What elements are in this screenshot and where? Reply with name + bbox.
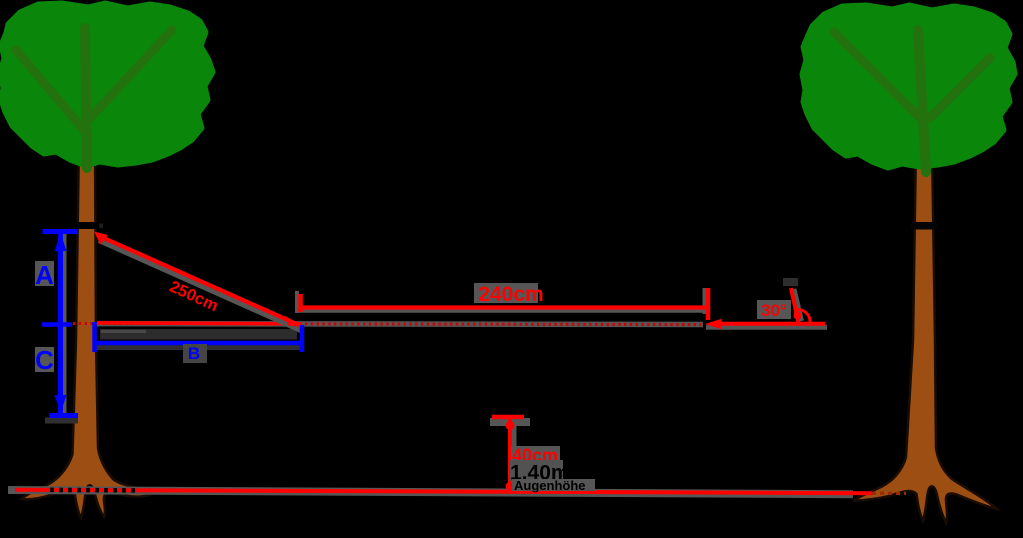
svg-text:Augenhöhe: Augenhöhe	[514, 478, 586, 493]
sight line shadow	[97, 321, 703, 327]
B right tick	[300, 325, 305, 352]
eye-height measure shadow	[510, 420, 517, 490]
horizontal red line eye to trunk	[97, 323, 301, 324]
ground line black dashes over left roots	[50, 488, 138, 493]
label C shadow	[35, 347, 54, 372]
ground line shadow	[8, 490, 853, 494]
240cm red line	[301, 305, 707, 309]
dimension B shadow	[96, 344, 302, 350]
eye-height top cap	[492, 415, 524, 420]
up arrowhead	[55, 233, 67, 251]
angle label shadow	[757, 300, 791, 319]
label B shadow	[183, 344, 207, 363]
eye-height vertical line	[508, 417, 512, 491]
label A shadow	[35, 261, 54, 286]
red baseline right	[718, 322, 825, 326]
tilted stick shadow	[794, 289, 802, 321]
ground line	[15, 490, 872, 493]
svg-text:30°: 30°	[761, 301, 787, 320]
svg-text:A: A	[35, 260, 54, 290]
black mark on right trunk	[911, 222, 937, 230]
svg-text:240cm: 240cm	[478, 283, 543, 306]
diagonal arrowhead lower	[285, 316, 302, 328]
blue vertical dimension line	[58, 231, 63, 415]
40cm label shadow	[511, 446, 560, 464]
arrow dot top	[506, 421, 515, 430]
right tree trunk and roots	[853, 142, 997, 523]
angle arc	[796, 310, 811, 323]
top cap	[43, 229, 79, 234]
down arrowhead	[55, 395, 67, 413]
svg-text:C: C	[35, 345, 54, 375]
blue B line	[95, 341, 302, 346]
right tree branches	[834, 30, 990, 172]
left tree foliage	[0, 3, 213, 166]
mid tick	[42, 322, 72, 327]
eye label box line2	[512, 479, 595, 491]
right baseline shadow	[706, 325, 827, 330]
svg-text:B: B	[188, 344, 200, 363]
sight arrow at stick	[705, 319, 722, 330]
ground line black dashes over right roots	[872, 492, 906, 495]
left tree trunk and roots	[21, 140, 152, 518]
dotted sight line	[73, 324, 701, 325]
small dark mark above stick	[783, 278, 798, 286]
right tree foliage	[802, 5, 1015, 168]
left tree branches	[16, 28, 172, 168]
dimension A/C shadow	[60, 231, 67, 416]
240cm label shadow	[474, 283, 538, 303]
arrow dot bottom	[506, 482, 515, 491]
diagonal line shadow	[99, 240, 303, 331]
bottom cap	[45, 418, 78, 424]
arc dot	[794, 312, 802, 320]
diagonal arrowhead upper	[94, 232, 108, 245]
red diagonal sight stick	[97, 235, 299, 325]
240cm measure shadow	[295, 291, 299, 313]
B left tick	[92, 322, 97, 352]
black mark on left trunk	[75, 222, 100, 229]
eye label box line1	[510, 460, 563, 481]
tilted stick	[791, 288, 799, 323]
eye-level black band shadow	[100, 329, 297, 340]
240cm left tick	[298, 294, 303, 312]
240cm right tick	[706, 288, 711, 320]
